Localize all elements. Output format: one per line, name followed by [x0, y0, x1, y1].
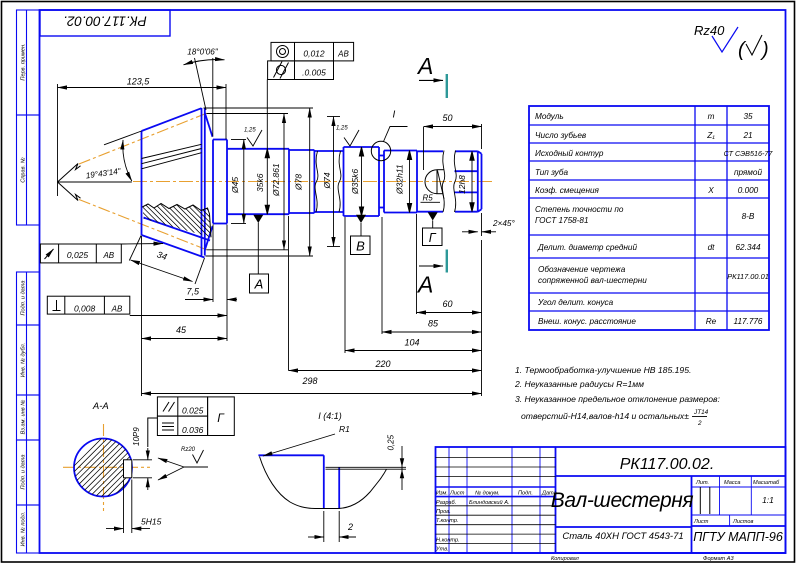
break squiggles: [315, 151, 456, 213]
svg-text:1:1: 1:1: [762, 495, 774, 505]
svg-text:I: I: [393, 110, 396, 121]
svg-text:X: X: [707, 186, 714, 195]
svg-text:Ø45: Ø45: [230, 177, 240, 194]
svg-text:18°0'06": 18°0'06": [187, 48, 219, 57]
svg-text:1,25: 1,25: [336, 126, 348, 132]
svg-text:Утв.: Утв.: [435, 547, 449, 553]
svg-text:РК.117.00.02.: РК.117.00.02.: [63, 14, 147, 29]
dim d35k6 right: [361, 147, 363, 216]
svg-text:35k6: 35k6: [255, 173, 265, 192]
svg-text:1,25: 1,25: [244, 128, 256, 134]
svg-text:Z₁: Z₁: [706, 131, 715, 140]
svg-text:12h8: 12h8: [457, 175, 467, 194]
svg-text:РК117.00.01: РК117.00.01: [727, 272, 769, 281]
5H15 dim: [123, 480, 125, 534]
svg-text:0.025: 0.025: [182, 406, 204, 416]
svg-text:10Р9: 10Р9: [132, 427, 141, 446]
0,008 leader: [130, 315, 227, 317]
top-left designation box: [40, 10, 170, 36]
svg-text:Ø74: Ø74: [322, 172, 332, 189]
apex lines with break zigzag: [58, 164, 81, 201]
groove: [379, 155, 384, 157]
shaft sections (blue): [213, 140, 482, 224]
svg-text:Г: Г: [429, 231, 437, 245]
svg-text:dt: dt: [708, 243, 716, 252]
small black dividers in Lit cell: [699, 487, 701, 514]
svg-text:0,012: 0,012: [303, 49, 325, 59]
svg-text:Пров.: Пров.: [436, 509, 451, 515]
dim d72.861: [207, 113, 289, 115]
svg-text:Ø32h11: Ø32h11: [395, 164, 405, 195]
upper tolerance frames: [268, 42, 354, 79]
svg-text:В: В: [356, 239, 365, 254]
7,5: [185, 299, 213, 301]
svg-text:0,008: 0,008: [74, 304, 96, 314]
svg-text:2×45°: 2×45°: [492, 219, 515, 228]
2x45: [481, 213, 483, 236]
keyway region: [417, 150, 443, 152]
svg-text:298: 298: [301, 376, 317, 386]
svg-text:3. Неуказанное предельное откл: 3. Неуказанное предельное отклонение раз…: [515, 394, 721, 404]
svg-text:Масштаб: Масштаб: [753, 480, 780, 486]
svg-text:Перв. примен.: Перв. примен.: [21, 43, 27, 80]
svg-text:123,5: 123,5: [127, 77, 151, 87]
pitch cone centerlines (orange): [79, 113, 207, 164]
svg-text:АВ: АВ: [337, 50, 349, 59]
angle 18: [195, 58, 207, 110]
datum G: [428, 212, 438, 220]
bottom extension lines: [141, 236, 143, 396]
svg-text:Лит.: Лит.: [695, 480, 709, 486]
svg-text:Н.контр.: Н.контр.: [436, 537, 460, 543]
svg-text:2: 2: [697, 420, 702, 427]
svg-text:Исходный контур: Исходный контур: [535, 149, 604, 158]
svg-text:21: 21: [742, 131, 752, 140]
svg-text:Подп.: Подп.: [518, 491, 533, 497]
dim d74: [327, 116, 340, 118]
svg-text:Rz20: Rz20: [181, 447, 196, 453]
45: [142, 338, 228, 340]
dim d45: [231, 139, 246, 141]
svg-text:А: А: [416, 272, 433, 298]
dim 50: [423, 127, 425, 170]
svg-text:0.000: 0.000: [738, 186, 759, 195]
d45: [212, 140, 214, 224]
svg-text:РК117.00.02.: РК117.00.02.: [620, 456, 715, 473]
svg-text:Т.контр.: Т.контр.: [436, 518, 459, 524]
svg-text:Число зубьев: Число зубьев: [535, 131, 587, 140]
svg-text:Сталь 40ХН ГОСТ 4543-71: Сталь 40ХН ГОСТ 4543-71: [562, 531, 683, 542]
svg-text:Разраб.: Разраб.: [436, 500, 456, 506]
svg-text:Копировал: Копировал: [551, 556, 580, 562]
svg-text:0,25: 0,25: [387, 434, 396, 450]
detail I circle marker: [371, 141, 390, 160]
svg-text:5Н15: 5Н15: [141, 517, 162, 527]
svg-text:45: 45: [176, 325, 187, 335]
svg-text:Инв. № дубл.: Инв. № дубл.: [21, 343, 27, 377]
tooth lines: [142, 144, 202, 169]
svg-text:62.344: 62.344: [735, 243, 760, 252]
svg-text:7,5: 7,5: [186, 287, 200, 297]
svg-text:0,025: 0,025: [67, 250, 89, 260]
d35k6 right: [343, 147, 345, 216]
svg-text:Угол делит. конуса: Угол делит. конуса: [537, 298, 614, 307]
svg-text:JT14: JT14: [693, 409, 709, 416]
svg-text:Подп. и дата: Подп. и дата: [21, 280, 27, 315]
svg-text:Подп. и дата: Подп. и дата: [21, 454, 27, 489]
svg-text:№ докум.: № докум.: [475, 491, 500, 497]
svg-text:Делит. диаметр средний: Делит. диаметр средний: [537, 243, 637, 252]
Rz40 corner mark: [694, 23, 769, 61]
svg-text:Лист: Лист: [449, 491, 465, 497]
d32h11: [384, 150, 417, 152]
svg-text:Масса: Масса: [724, 480, 741, 486]
dim d78: [204, 107, 314, 109]
svg-text:отверстий-Н14,валов-h14 и оста: отверстий-Н14,валов-h14 и остальных±: [521, 411, 689, 421]
123.5: [57, 84, 59, 196]
svg-text:А: А: [254, 277, 264, 292]
left margin strip boxes: [17, 10, 40, 553]
svg-text:АВ: АВ: [102, 251, 114, 260]
svg-text:220: 220: [374, 359, 390, 369]
collar: [289, 149, 314, 151]
svg-text:прямой: прямой: [734, 168, 763, 177]
angle 19: [58, 181, 132, 183]
svg-text:Изм.: Изм.: [436, 491, 448, 497]
svg-text:117.776: 117.776: [734, 317, 763, 326]
A-A tolerance frame: [148, 397, 235, 447]
svg-text:): ): [760, 39, 769, 61]
end stub: [455, 150, 478, 152]
svg-text:1. Термообработка-улучшение НВ: 1. Термообработка-улучшение НВ 185.195.: [515, 365, 691, 375]
svg-text:85: 85: [428, 319, 439, 329]
dim 35k6 + leader to frames: [266, 80, 268, 215]
svg-text:Ø35k6: Ø35k6: [350, 169, 360, 195]
svg-text:Коэф. смещения: Коэф. смещения: [535, 186, 600, 195]
svg-text:Обозначение чертежа: Обозначение чертежа: [538, 265, 626, 274]
svg-text:ПГТУ МАПП-96: ПГТУ МАПП-96: [693, 530, 783, 544]
svg-text:2. Неуказанные радиусы R=1мм: 2. Неуказанные радиусы R=1мм: [514, 379, 644, 389]
svg-text:I (4:1): I (4:1): [318, 411, 342, 421]
svg-text:Инв. № подл.: Инв. № подл.: [21, 512, 27, 547]
35k6: [227, 148, 289, 150]
gear blank (blue): [142, 108, 213, 258]
34 dim: [129, 236, 141, 261]
svg-text:m: m: [708, 112, 715, 121]
dim d32h11: [409, 151, 411, 213]
svg-text:Дата: Дата: [541, 491, 557, 497]
svg-text:60: 60: [442, 299, 452, 309]
svg-text:Внеш. конус. расстояние: Внеш. конус. расстояние: [538, 317, 636, 326]
svg-text:R5: R5: [423, 194, 434, 203]
svg-text:R1: R1: [339, 424, 350, 434]
svg-text:2: 2: [347, 522, 353, 532]
svg-text:Вал-шестерня: Вал-шестерня: [551, 489, 694, 512]
svg-text:50: 50: [442, 113, 452, 123]
datum A: [253, 215, 263, 223]
60 85 104 220 298: [417, 312, 482, 314]
svg-text:Модуль: Модуль: [535, 112, 564, 121]
svg-text:Ø72.861: Ø72.861: [271, 163, 281, 197]
datum B: [356, 215, 366, 223]
svg-text:8-В: 8-В: [742, 212, 755, 221]
svg-text:Блиндовский А.: Блиндовский А.: [469, 499, 509, 506]
svg-text:Тип зуба: Тип зуба: [535, 168, 568, 177]
svg-text:35: 35: [743, 112, 753, 121]
svg-text:СТ СЭВ516-77: СТ СЭВ516-77: [724, 149, 774, 158]
svg-text:Вз.ам. инв №: Вз.ам. инв №: [21, 400, 27, 435]
svg-text:ГОСТ 1758-81: ГОСТ 1758-81: [535, 216, 589, 225]
svg-text:Степень точности по: Степень точности по: [535, 205, 624, 214]
tooth section hatched: [142, 204, 211, 238]
svg-text:А-А: А-А: [92, 401, 109, 412]
svg-text:А: А: [416, 53, 433, 79]
main centerline: [133, 181, 492, 183]
svg-text:Справ. №: Справ. №: [21, 157, 27, 182]
svg-text:Формат А3: Формат А3: [703, 556, 734, 562]
svg-text:Ø78: Ø78: [294, 174, 304, 191]
svg-text:0.036: 0.036: [182, 425, 204, 435]
left tolerance frames: [40, 244, 129, 314]
svg-text:Re: Re: [706, 317, 717, 326]
thin tip-cone extension: [104, 131, 142, 145]
svg-text:Листов: Листов: [732, 519, 753, 525]
svg-text:сопряженной вал-шестерни: сопряженной вал-шестерни: [538, 276, 647, 285]
d74 broken: [314, 150, 343, 152]
dim 12h8: [471, 151, 473, 211]
keyway D-slot: [425, 170, 444, 194]
svg-text:.0.005: .0.005: [302, 68, 326, 78]
svg-text:Rz40: Rz40: [694, 23, 725, 38]
svg-text:Лист: Лист: [693, 519, 709, 525]
svg-text:АВ: АВ: [111, 305, 123, 314]
svg-text:104: 104: [404, 338, 419, 348]
